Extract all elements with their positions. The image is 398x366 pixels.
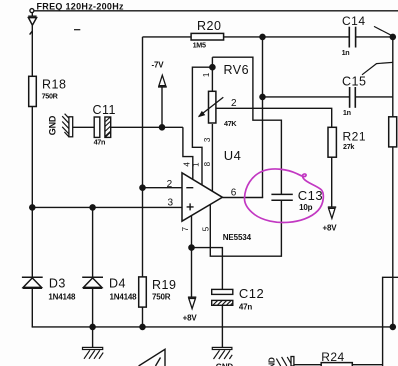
svg-text:-7V: -7V: [152, 60, 165, 69]
wire V- rail to opamp pin4: [183, 127, 193, 179]
node input terminal circle: [30, 9, 34, 13]
svg-text:1: 1: [202, 72, 211, 77]
wire pin 2 net: [143, 187, 183, 189]
wire C15 leader diagonal: [362, 62, 393, 74]
svg-text:RV6: RV6: [224, 63, 250, 77]
svg-text:1M5: 1M5: [193, 41, 206, 50]
node junction right rail: [390, 324, 395, 329]
svg-text:750R: 750R: [42, 92, 59, 101]
diode D4: [82, 277, 103, 288]
node junction D4 bottom: [90, 324, 95, 329]
resistor right edge: [389, 117, 397, 147]
svg-text:1N4148: 1N4148: [48, 292, 76, 301]
svg-text:1n: 1n: [342, 48, 350, 57]
svg-text:7: 7: [181, 226, 190, 231]
node junction RV6 top: [210, 65, 215, 70]
svg-text:C12: C12: [239, 286, 264, 301]
annotation magenta circle around C13: [244, 169, 323, 223]
svg-text:GND: GND: [48, 115, 58, 135]
diode D3: [22, 277, 43, 288]
svg-text:GND: GND: [216, 363, 234, 366]
node junction D4 top: [90, 205, 95, 210]
wire D4 junction to ground: [92, 327, 94, 348]
resistor R20: [143, 33, 350, 40]
wire RV6 wiper pin2 to R21: [216, 108, 332, 127]
svg-text:27k: 27k: [343, 142, 354, 151]
wire GND to C11: [73, 126, 95, 128]
wire D4 top lead: [92, 207, 94, 277]
wire RV6 top lead: [211, 57, 213, 91]
wire D4 to rail: [92, 288, 94, 327]
wire pin7 to C12: [192, 248, 223, 290]
wire opamp output pin6: [222, 197, 263, 199]
svg-text:2: 2: [167, 179, 173, 190]
node junction pin3 left: [30, 205, 35, 210]
wire R18 to D3: [31, 107, 33, 278]
node junction pin7: [189, 245, 194, 250]
wire R19 to rail: [142, 307, 144, 327]
wire switch diagonal at C14: [374, 26, 393, 36]
wire dash annotation: [74, 29, 80, 31]
node big arrow bottom left: [139, 349, 165, 366]
resistor R19: [139, 277, 147, 307]
wire top FREQ net horizontal: [34, 10, 398, 12]
node input arrow down: [28, 16, 36, 25]
wire bottom rail: [32, 325, 393, 328]
resistor R21: [328, 127, 336, 157]
wire feedback vertical: [262, 37, 264, 198]
wire R21 to +8V: [331, 157, 333, 207]
capacitor C11: [94, 117, 111, 137]
svg-text:+8V: +8V: [323, 223, 338, 232]
wire pin2 down to R19: [142, 188, 144, 277]
power +8V arrow at R21: [328, 207, 336, 218]
capacitor C14: [349, 27, 393, 48]
wire right vertical lower: [392, 147, 394, 327]
wire C11 to V- rail: [111, 126, 183, 128]
wire pin 3 net horizontal: [32, 206, 182, 208]
svg-text:8: 8: [203, 161, 212, 166]
wire pin7 to +8V: [191, 248, 193, 298]
wire right corner net: [383, 277, 398, 366]
svg-text:10p: 10p: [299, 203, 312, 212]
svg-text:3: 3: [203, 137, 212, 142]
wire RV6 junction to opamp pin1: [192, 67, 212, 185]
wire C12 to ground: [221, 305, 223, 347]
svg-text:C11: C11: [93, 103, 117, 117]
svg-text:GND: GND: [267, 357, 276, 366]
wire RV6 top to C13 top: [212, 57, 281, 194]
node junction R19 bottom: [140, 324, 145, 329]
svg-text:5: 5: [202, 226, 211, 231]
ground hatch at R24: [276, 357, 294, 366]
svg-text:C14: C14: [342, 14, 366, 28]
svg-text:R24: R24: [321, 350, 345, 364]
svg-text:C13: C13: [298, 188, 323, 203]
node junction C15 left: [260, 94, 265, 99]
node junction pin2: [140, 185, 145, 190]
node junction feedback top: [260, 34, 265, 39]
svg-text:750R: 750R: [152, 293, 171, 302]
svg-text:R19: R19: [152, 278, 176, 292]
potentiometer RV6: [199, 91, 224, 123]
wire pin7 lead: [191, 216, 193, 248]
power +8V arrow at pin7: [188, 297, 196, 308]
power -7V arrow up: [158, 75, 167, 87]
svg-text:47n: 47n: [94, 138, 106, 147]
ground symbol at D4: [83, 347, 104, 358]
svg-text:6: 6: [231, 187, 237, 198]
resistor R18: [29, 76, 37, 106]
wire R20 left lead down to pin2: [142, 37, 144, 188]
wire arrow to R18: [30, 25, 33, 76]
resistor R24: [294, 363, 383, 366]
wire RV6 bottom to opamp pin8: [211, 124, 213, 191]
svg-text:2: 2: [231, 98, 237, 109]
capacitor C12: [212, 289, 233, 305]
svg-text:47n: 47n: [239, 303, 252, 312]
svg-text:R18: R18: [42, 78, 66, 92]
svg-text:47K: 47K: [224, 119, 237, 128]
node junction -7V: [159, 125, 164, 130]
svg-text:NE5534: NE5534: [223, 233, 252, 242]
wire D3 to rail: [31, 288, 33, 327]
node junction C14 right: [390, 34, 395, 39]
capacitor C15: [263, 87, 393, 108]
svg-text:1n: 1n: [343, 108, 351, 117]
svg-text:D4: D4: [109, 276, 126, 290]
wire terminal to arrow: [31, 12, 33, 16]
capacitor C13: [271, 194, 292, 200]
wire pin5 lead: [210, 200, 281, 256]
svg-text:C15: C15: [342, 75, 366, 89]
op-amp U4: [182, 173, 222, 221]
svg-text:D3: D3: [49, 276, 66, 290]
svg-text:4: 4: [183, 162, 192, 167]
svg-text:R20: R20: [197, 19, 221, 33]
wire -7V arrow lead: [161, 87, 163, 127]
svg-text:U4: U4: [224, 148, 242, 163]
svg-text:+8V: +8V: [183, 314, 198, 323]
svg-text:1N4148: 1N4148: [110, 292, 138, 301]
svg-text:3: 3: [168, 197, 174, 208]
ground symbol at C12: [212, 347, 232, 359]
ground GND hatch at C11: [62, 114, 73, 137]
wire right vertical: [392, 37, 394, 117]
